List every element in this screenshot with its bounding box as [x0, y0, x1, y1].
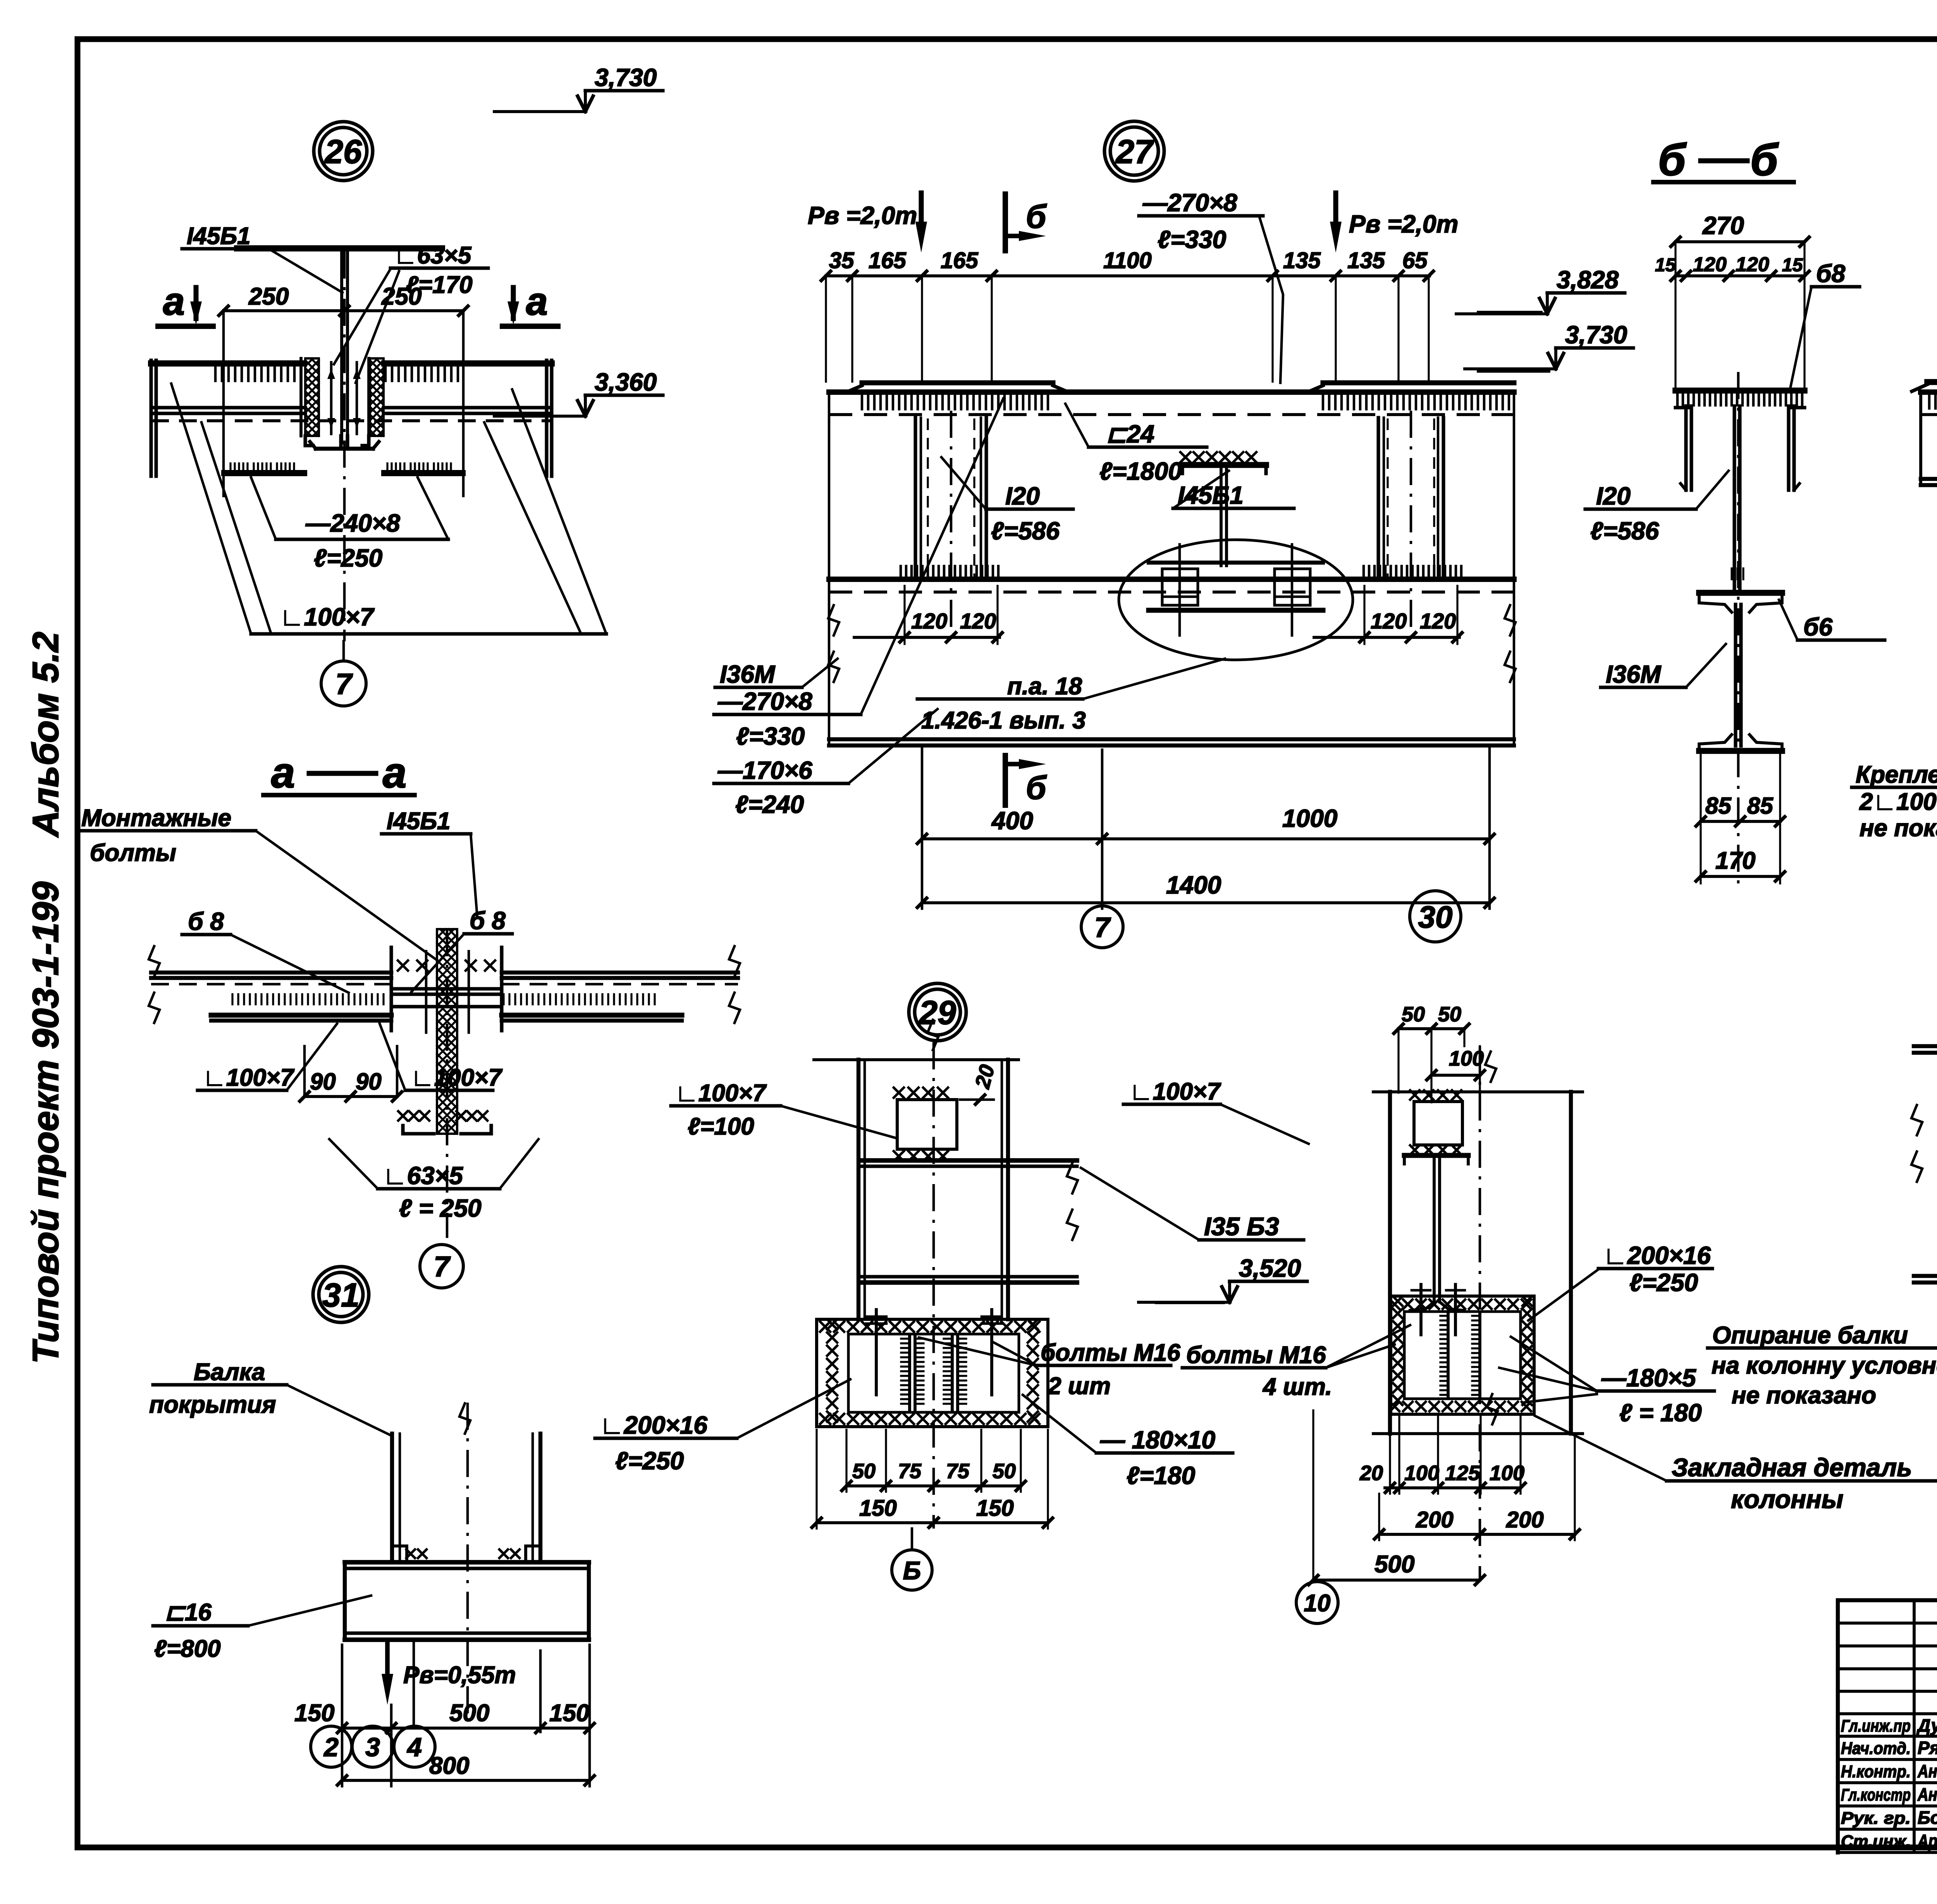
svg-text:3: 3: [365, 1732, 380, 1762]
svg-text:85: 85: [1705, 793, 1732, 819]
svg-text:Pв =2,0т: Pв =2,0т: [1349, 210, 1458, 238]
svg-text:⊏16: ⊏16: [165, 1599, 212, 1626]
svg-text:270: 270: [1702, 212, 1744, 239]
svg-text:ℓ=180: ℓ=180: [1127, 1462, 1195, 1489]
svg-text:100: 100: [1404, 1462, 1439, 1485]
svg-text:∟100×7: ∟100×7: [280, 603, 375, 631]
svg-text:90: 90: [356, 1069, 382, 1095]
svg-text:30: 30: [1418, 900, 1453, 934]
svg-text:∟100×7: ∟100×7: [203, 1064, 294, 1091]
svg-text:135: 135: [1347, 248, 1385, 273]
svg-text:б: б: [1026, 198, 1047, 235]
svg-text:1000: 1000: [1282, 804, 1337, 832]
svg-text:7: 7: [335, 668, 353, 701]
svg-text:I36М: I36М: [1606, 660, 1662, 688]
svg-text:I45Б1: I45Б1: [1178, 481, 1244, 509]
svg-text:Pв=0,55т: Pв=0,55т: [403, 1662, 516, 1689]
svg-text:п.а. 18: п.а. 18: [1007, 673, 1082, 700]
svg-text:120: 120: [1693, 253, 1727, 276]
svg-text:ℓ=800: ℓ=800: [154, 1635, 221, 1662]
svg-text:б 8: б 8: [188, 907, 224, 935]
svg-text:а: а: [383, 749, 406, 797]
svg-text:б 8: б 8: [470, 907, 506, 935]
svg-text:б6: б6: [1803, 613, 1833, 641]
svg-text:200: 200: [1416, 1507, 1454, 1532]
svg-text:Типовой проект 903-1-199: Типовой проект 903-1-199: [25, 881, 66, 1364]
svg-text:15: 15: [1782, 255, 1803, 275]
svg-text:I36М: I36М: [720, 660, 776, 688]
svg-text:26: 26: [324, 133, 362, 170]
svg-text:∟63×5: ∟63×5: [383, 1162, 463, 1190]
svg-text:75: 75: [946, 1460, 970, 1483]
svg-text:б: б: [1750, 135, 1779, 185]
svg-text:на колонну условно: на колонну условно: [1712, 1352, 1937, 1379]
svg-text:3,520: 3,520: [1239, 1254, 1301, 1282]
svg-text:Альбом 5.2: Альбом 5.2: [25, 632, 66, 838]
svg-text:7: 7: [434, 1251, 451, 1283]
svg-text:4 шт.: 4 шт.: [1262, 1374, 1332, 1400]
svg-text:ℓ = 250: ℓ = 250: [399, 1194, 482, 1222]
svg-text:150: 150: [294, 1700, 334, 1727]
svg-text:120: 120: [960, 609, 996, 633]
svg-text:150: 150: [976, 1496, 1014, 1521]
svg-text:Н.контр.: Н.контр.: [1841, 1762, 1911, 1781]
svg-text:1100: 1100: [1103, 248, 1152, 273]
svg-text:∟200×16: ∟200×16: [1603, 1241, 1711, 1269]
svg-text:3,360: 3,360: [595, 368, 657, 396]
svg-text:ℓ=100: ℓ=100: [688, 1113, 754, 1140]
svg-text:не показано: не показано: [1860, 815, 1937, 842]
svg-text:∟100×7: ∟100×7: [1129, 1078, 1221, 1105]
svg-text:35: 35: [829, 248, 854, 273]
svg-text:∟63×5: ∟63×5: [394, 242, 472, 269]
svg-text:б: б: [1026, 770, 1047, 806]
svg-text:ℓ=250: ℓ=250: [314, 544, 382, 572]
svg-text:500: 500: [449, 1700, 489, 1727]
svg-text:100: 100: [1449, 1047, 1484, 1070]
svg-text:10: 10: [1304, 1590, 1331, 1617]
svg-text:250: 250: [381, 283, 421, 310]
svg-text:— 180×10: — 180×10: [1100, 1426, 1215, 1454]
svg-text:2∟100×7 условно: 2∟100×7 условно: [1859, 788, 1937, 815]
svg-text:50: 50: [852, 1460, 876, 1483]
svg-text:а: а: [271, 749, 295, 797]
svg-text:I45Б1: I45Б1: [187, 223, 251, 250]
svg-text:I35 Б3: I35 Б3: [1204, 1212, 1279, 1241]
svg-text:250: 250: [248, 283, 289, 310]
svg-text:ℓ=330: ℓ=330: [1158, 226, 1226, 253]
svg-text:100: 100: [1490, 1462, 1524, 1485]
svg-text:800: 800: [429, 1753, 469, 1779]
svg-text:Ст.инж.: Ст.инж.: [1841, 1832, 1911, 1851]
svg-text:90: 90: [310, 1069, 336, 1095]
svg-text:∟100×7: ∟100×7: [411, 1064, 502, 1091]
svg-text:150: 150: [859, 1496, 897, 1521]
svg-text:—270×8: —270×8: [717, 687, 812, 715]
svg-text:1400: 1400: [1166, 871, 1221, 899]
svg-text:120: 120: [911, 609, 947, 633]
svg-text:Гл.констр: Гл.констр: [1841, 1785, 1911, 1804]
svg-text:Опирание балки: Опирание балки: [1712, 1322, 1908, 1349]
svg-text:Артамонова: Артамонова: [1917, 1831, 1937, 1851]
svg-text:ℓ=1800: ℓ=1800: [1099, 457, 1182, 485]
svg-text:15: 15: [1655, 255, 1676, 275]
svg-text:50: 50: [1402, 1003, 1425, 1026]
svg-text:1.426-1 вып. 3: 1.426-1 вып. 3: [921, 707, 1086, 734]
svg-text:75: 75: [898, 1460, 922, 1483]
svg-text:болты: болты: [90, 840, 176, 866]
svg-text:2 шт: 2 шт: [1048, 1373, 1111, 1400]
svg-text:29: 29: [918, 994, 956, 1031]
svg-text:I20: I20: [1596, 482, 1631, 510]
svg-text:150: 150: [549, 1700, 589, 1727]
svg-text:165: 165: [941, 248, 979, 273]
svg-text:∟100×7: ∟100×7: [675, 1080, 767, 1107]
svg-text:Б: Б: [903, 1556, 921, 1585]
svg-text:4: 4: [406, 1732, 422, 1762]
svg-text:⊏24: ⊏24: [1106, 420, 1154, 448]
svg-text:I45Б1: I45Б1: [387, 808, 451, 835]
svg-text:135: 135: [1283, 248, 1321, 273]
svg-text:Рук. гр.: Рук. гр.: [1841, 1809, 1911, 1828]
svg-text:∟200×16: ∟200×16: [600, 1411, 707, 1439]
svg-text:50: 50: [1438, 1003, 1461, 1026]
svg-text:I20: I20: [1005, 482, 1040, 510]
svg-text:б: б: [1658, 135, 1687, 185]
svg-text:170: 170: [1715, 847, 1755, 874]
svg-text:Закладная деталь: Закладная деталь: [1672, 1453, 1912, 1482]
svg-text:Монтажные: Монтажные: [81, 805, 231, 831]
svg-text:а: а: [163, 280, 185, 323]
svg-text:125: 125: [1445, 1462, 1480, 1485]
svg-text:165: 165: [869, 248, 907, 273]
svg-text:Крепление связей: Крепление связей: [1856, 761, 1937, 788]
svg-text:Думан: Думан: [1916, 1715, 1937, 1735]
svg-text:—270×8: —270×8: [1142, 189, 1237, 217]
svg-text:400: 400: [991, 807, 1033, 835]
svg-text:27: 27: [1115, 133, 1154, 170]
svg-text:Андриевская: Андриевская: [1917, 1761, 1937, 1781]
svg-text:120: 120: [1420, 609, 1456, 633]
svg-text:Андриевская: Андриевская: [1917, 1784, 1937, 1804]
svg-text:Рябуха: Рябуха: [1918, 1738, 1937, 1758]
svg-text:ℓ=586: ℓ=586: [1590, 517, 1659, 545]
svg-text:ℓ=240: ℓ=240: [735, 790, 804, 818]
svg-text:ℓ=250: ℓ=250: [615, 1447, 684, 1475]
svg-text:болты М16: болты М16: [1186, 1342, 1326, 1369]
svg-text:не показано: не показано: [1732, 1382, 1876, 1409]
svg-text:—240×8: —240×8: [305, 509, 400, 537]
svg-text:3,828: 3,828: [1557, 266, 1619, 294]
svg-text:ℓ=250: ℓ=250: [1629, 1269, 1698, 1296]
svg-text:200: 200: [1506, 1507, 1544, 1532]
svg-text:Балка: Балка: [194, 1359, 265, 1386]
svg-text:65: 65: [1402, 248, 1428, 273]
svg-text:ℓ=586: ℓ=586: [991, 517, 1060, 545]
svg-text:50: 50: [993, 1460, 1016, 1483]
svg-text:Бобрук: Бобрук: [1918, 1808, 1937, 1828]
svg-text:500: 500: [1374, 1551, 1414, 1578]
svg-text:85: 85: [1747, 793, 1774, 819]
svg-text:3,730: 3,730: [595, 64, 657, 91]
svg-text:Гл.инж.пр: Гл.инж.пр: [1841, 1716, 1911, 1735]
svg-text:20: 20: [1359, 1462, 1383, 1485]
svg-text:7: 7: [1094, 912, 1111, 943]
svg-text:Нач.отд.: Нач.отд.: [1841, 1739, 1911, 1758]
svg-text:болты М16: болты М16: [1041, 1339, 1180, 1366]
svg-text:а: а: [526, 280, 548, 323]
svg-text:2: 2: [323, 1732, 339, 1762]
svg-text:—180×5: —180×5: [1601, 1364, 1696, 1392]
svg-text:3,730: 3,730: [1565, 321, 1627, 349]
svg-text:ℓ=330: ℓ=330: [736, 722, 805, 750]
svg-text:120: 120: [1736, 253, 1769, 276]
svg-text:б8: б8: [1816, 260, 1846, 287]
svg-text:Pв =2,0т: Pв =2,0т: [808, 201, 917, 229]
svg-text:120: 120: [1371, 609, 1407, 633]
svg-text:ℓ = 180: ℓ = 180: [1619, 1399, 1702, 1427]
svg-text:31: 31: [322, 1277, 360, 1314]
svg-text:покрытия: покрытия: [149, 1391, 276, 1418]
svg-text:колонны: колонны: [1731, 1485, 1843, 1513]
svg-text:—170×6: —170×6: [717, 756, 812, 784]
